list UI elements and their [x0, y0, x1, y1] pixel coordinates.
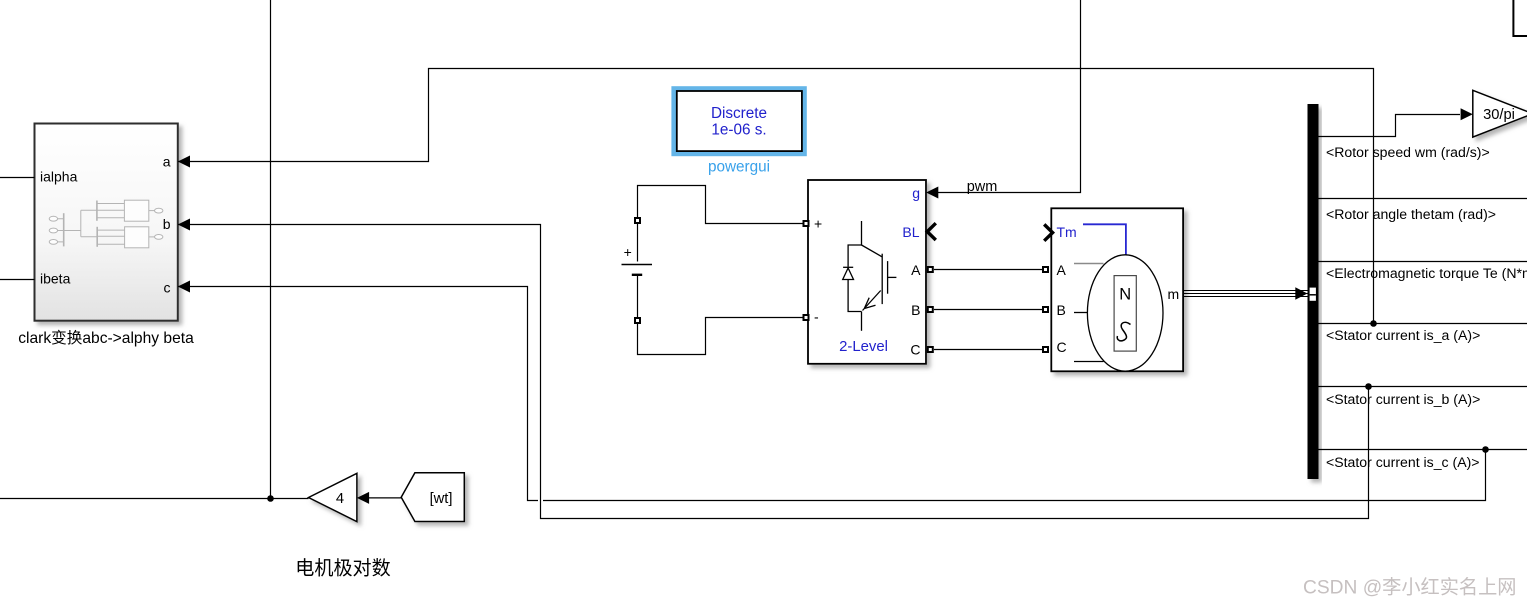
wire wt vertical trunk: [270, 0, 272, 499]
motor stator lead C: [1074, 361, 1104, 363]
svg-text:<Stator current is_c (A)>: <Stator current is_c (A)>: [1326, 454, 1480, 470]
svg-text:2-Level: 2-Level: [839, 339, 888, 355]
From tag [wt]: [401, 473, 464, 522]
svg-text:clark变换abc->alphy beta: clark变换abc->alphy beta: [18, 329, 194, 347]
wire pwm into g: [938, 0, 1081, 193]
svg-text:电机极对数: 电机极对数: [295, 558, 390, 580]
svg-text:<Stator current is_b (A)>: <Stator current is_b (A)>: [1326, 391, 1480, 407]
svg-text:1e-06 s.: 1e-06 s.: [711, 122, 766, 139]
bus selector input icon: [1310, 288, 1316, 301]
svg-text:-: -: [814, 309, 819, 325]
converter - port square: [804, 315, 809, 320]
svg-text:B: B: [1057, 302, 1066, 318]
bus output wire 4: is_a: [1319, 323, 1527, 325]
svg-text:b: b: [163, 216, 171, 232]
powergui block: [671, 86, 806, 156]
wire ibeta output stub: [0, 279, 35, 281]
converter block 2-Level: [808, 180, 926, 364]
DC source positive plate: [622, 264, 653, 266]
svg-text:<Rotor angle thetam (rad)>: <Rotor angle thetam (rad)>: [1326, 206, 1496, 222]
junction is_c branch: [1482, 446, 1489, 453]
arrowhead into gain 4 input: [357, 492, 369, 504]
gain 30/pi: [1473, 90, 1527, 137]
motor rotor ellipse: [1087, 255, 1163, 371]
svg-text:C: C: [910, 342, 920, 358]
svg-text:A: A: [911, 262, 921, 278]
converter + port square: [804, 221, 809, 226]
motor stator lead A: [1074, 263, 1104, 265]
wire converter C to motor C: [934, 349, 1043, 351]
DC source negative plate: [632, 274, 642, 276]
motor magnet rectangle: [1114, 276, 1136, 352]
bus output wire 5: is_b: [1319, 386, 1527, 388]
svg-text:g: g: [912, 185, 920, 201]
svg-text:CSDN @李小红实名上网: CSDN @李小红实名上网: [1303, 577, 1517, 599]
wire gain4 output to left edge: [0, 498, 309, 500]
wire converter A to motor A: [934, 269, 1043, 271]
DC voltage source wiring bottom: [638, 275, 806, 355]
magnet S label: [1117, 322, 1130, 341]
svg-text:ialpha: ialpha: [40, 169, 78, 185]
svg-text:[wt]: [wt]: [430, 491, 453, 507]
svg-text:a: a: [163, 154, 171, 170]
DC voltage source wiring top: [638, 186, 806, 262]
motor Tm internal blue wire: [1083, 224, 1126, 255]
svg-text:c: c: [164, 280, 171, 296]
converter IGBT/diode icon: [843, 221, 897, 331]
wire c input (from bus is_c via bottom route, part 1): [178, 287, 538, 501]
svg-text:pwm: pwm: [967, 179, 998, 195]
arrowhead into gain 30/pi: [1461, 108, 1473, 120]
svg-text:N: N: [1119, 286, 1131, 304]
arrowhead into clark port c: [178, 281, 190, 293]
svg-text:Tm: Tm: [1057, 224, 1077, 240]
bus wire m (triple line): [1183, 291, 1308, 297]
wire a input (from bus is_a via top route): [178, 69, 1374, 324]
bus selector bar: [1308, 104, 1319, 479]
junction is_b branch: [1365, 383, 1372, 390]
bus output wire 1: rotor speed: [1319, 115, 1461, 137]
bus output wire 3: torque: [1319, 261, 1527, 263]
motor stator lead B: [1074, 312, 1088, 314]
svg-text:<Electromagnetic torque Te (N*: <Electromagnetic torque Te (N*m)>: [1326, 265, 1527, 281]
converter BL unconnected input chevron: [927, 223, 936, 240]
junction is_a branch: [1370, 320, 1377, 327]
wire ialpha output stub: [0, 177, 35, 179]
svg-text:4: 4: [336, 491, 344, 507]
wire from [wt] to gain 4: [367, 497, 402, 499]
arrowhead of bus wire into bus selector: [1295, 287, 1307, 299]
DC source + port square: [635, 218, 640, 223]
arrowhead into clark port a: [178, 156, 190, 168]
svg-text:powergui: powergui: [708, 159, 770, 176]
svg-text:m: m: [1168, 286, 1180, 302]
DC source - port square: [635, 318, 640, 323]
svg-text:30/pi: 30/pi: [1483, 107, 1515, 123]
motor Tm unconnected input chevron: [1044, 224, 1052, 240]
gain 4 (电机极对数): [309, 473, 357, 521]
subsystem clark变换abc->alphy beta: [35, 124, 178, 321]
svg-text:<Rotor speed wm (rad/s)>: <Rotor speed wm (rad/s)>: [1326, 144, 1490, 160]
svg-text:C: C: [1057, 339, 1067, 355]
wire b input (from bus is_b via bottom route): [178, 225, 1369, 519]
PMSM motor block: [1051, 208, 1183, 371]
junction wt trunk / gain4 output: [267, 495, 274, 502]
svg-text:B: B: [911, 302, 920, 318]
bus output wire 2: rotor angle: [1319, 198, 1527, 200]
wire c input (part 2 after crossing gap): [543, 450, 1486, 501]
svg-text:+: +: [814, 216, 822, 232]
wire converter B to motor B: [934, 309, 1043, 311]
arrowhead into clark port b: [178, 219, 190, 231]
arrowhead into converter port g: [926, 187, 938, 199]
svg-text:Discrete: Discrete: [711, 105, 767, 122]
converter output port squares A B C: [928, 267, 933, 272]
bus output wire 6: is_c: [1319, 449, 1527, 451]
svg-text:<Stator current is_a (A)>: <Stator current is_a (A)>: [1326, 327, 1480, 343]
clipped block corner top-right: [1513, 0, 1527, 36]
motor input port squares A B C: [1043, 267, 1048, 272]
clark subsystem inner icon sketch: [49, 200, 163, 248]
svg-text:A: A: [1057, 262, 1067, 278]
svg-text:BL: BL: [902, 224, 919, 240]
svg-text:ibeta: ibeta: [40, 271, 71, 287]
svg-text:+: +: [624, 244, 632, 260]
